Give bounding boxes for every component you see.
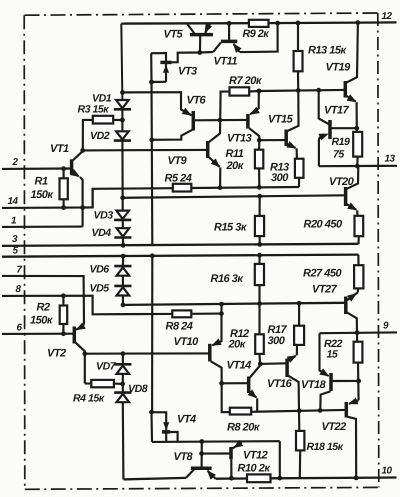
- node R2 bottom on pin6 line: [61, 331, 66, 336]
- svg-text:VT16: VT16: [267, 378, 293, 390]
- transistor VT2 collector wire: [75, 342, 85, 383]
- wire VT6 emitter from VD chain: [123, 92, 192, 115]
- resistor R11 box: [255, 150, 263, 169]
- transistor VT10 collector wire: [211, 361, 230, 412]
- resistor R16 bottom lead / R12 top lead: [258, 285, 260, 334]
- node R13 bottom on bus: [296, 88, 301, 93]
- node VT12 emitter on rail: [277, 476, 282, 481]
- resistor R22 bottom lead: [357, 363, 360, 401]
- pin 1 label: [11, 216, 16, 227]
- transistor VT19 label: [326, 62, 352, 74]
- node R4 right on VD chain: [120, 382, 125, 387]
- transistor VT22 collector wire: [348, 417, 357, 478]
- resistor R18 label: [307, 441, 344, 453]
- svg-text:VT12: VT12: [243, 450, 268, 462]
- wire VT3-VT6 column down to pin 3 bus: [150, 82, 153, 245]
- resistor R20 box: [355, 216, 364, 236]
- transistor VT19 emitter wire: [347, 94, 357, 132]
- resistor R5 label: [165, 173, 192, 185]
- pin 10 label: [382, 466, 393, 477]
- svg-text:VT1: VT1: [50, 143, 69, 155]
- node R3 right on VD chain: [120, 118, 125, 123]
- resistor R19 bottom lead: [356, 157, 358, 167]
- pin 7 label: [17, 265, 23, 276]
- resistor R13-300 bottom lead: [298, 178, 300, 187]
- node R2 top on pin8 line: [61, 293, 66, 298]
- resistor R27 label: [303, 268, 342, 280]
- svg-text:R13 15к: R13 15к: [308, 45, 347, 57]
- transistor VT17 label: [324, 105, 350, 117]
- resistor R1 top lead: [63, 169, 65, 179]
- resistor R10 box: [247, 474, 271, 482]
- node VT12 collector on rail: [229, 476, 234, 481]
- resistor R18 bottom lead: [299, 450, 302, 478]
- diode VD6: [114, 266, 131, 276]
- transistor VT16 body: [285, 359, 289, 378]
- node VD chain / VT6 emitter: [120, 90, 125, 95]
- diode VD1: [114, 100, 131, 109]
- wire VD5 down to bias bus: [122, 296, 124, 305]
- transistor VT3 loop left side: [151, 53, 166, 82]
- resistor R2 label: [30, 302, 54, 327]
- transistor VT18 body: [329, 373, 333, 391]
- transistor VT11 label: [214, 56, 238, 68]
- wire bias column x152: [151, 256, 153, 412]
- svg-text:VT2: VT2: [47, 348, 66, 360]
- diode VD8: [114, 393, 131, 403]
- resistor R19 label: [332, 136, 351, 161]
- wire R8 right to VT10 emitter column: [191, 313, 221, 315]
- node VT1 collector: [80, 148, 85, 153]
- node R13 top on rail: [296, 21, 301, 26]
- svg-text:2: 2: [12, 157, 19, 168]
- transistor VT4 label: [177, 414, 196, 426]
- node bias column top on pin5 bus: [150, 253, 155, 258]
- wire node to VT11 collector: [200, 51, 213, 54]
- pin 6 label: [17, 323, 23, 334]
- transistor VT9 body: [206, 141, 210, 158]
- transistor VT15 collector wire: [287, 90, 298, 131]
- node VT18 base on bus: [318, 408, 323, 413]
- resistor R17 box: [294, 326, 304, 345]
- transistor VT14 body: [247, 377, 251, 394]
- svg-text:14: 14: [8, 196, 19, 207]
- transistor VT17 emitter wire: [319, 134, 329, 167]
- resistor R8-24 box: [172, 310, 191, 317]
- node A VT13 collector / VT15 base: [257, 138, 262, 143]
- svg-text:R27 450: R27 450: [303, 268, 342, 280]
- transistor VT5 body: [187, 23, 213, 34]
- svg-text:R9 2к: R9 2к: [243, 28, 270, 40]
- pin 14 label: [8, 196, 19, 207]
- resistor R12 box: [255, 334, 264, 354]
- resistor R12 label: [228, 328, 250, 351]
- transistor VT16 emitter wire: [287, 345, 297, 363]
- diode VD3: [114, 211, 131, 220]
- resistor R2 top lead: [62, 296, 64, 306]
- transistor VT18 base wire: [320, 391, 330, 410]
- node VD chain to second stage bus: [120, 195, 125, 200]
- svg-text:VD5: VD5: [90, 283, 111, 295]
- svg-text:R18 15к: R18 15к: [307, 441, 344, 453]
- resistor R13 box: [294, 51, 303, 71]
- node VD4 on pin 3 bus: [121, 243, 126, 248]
- wire rail left corner down to VD1: [121, 24, 122, 100]
- resistor R20 bottom lead to pin3 bus: [357, 236, 359, 244]
- diode VD1 label: [92, 93, 112, 105]
- transistor VT1 emitter wire: [70, 169, 83, 227]
- pin 2 lead: [2, 167, 71, 170]
- svg-text:300: 300: [271, 172, 289, 184]
- IC boundary chain border (top): [25, 13, 378, 15]
- transistor VT6 collector wire: [152, 130, 193, 140]
- transistor VT11 emitter return wire: [240, 23, 278, 52]
- svg-text:VD8: VD8: [128, 383, 148, 395]
- pin 3 label: [12, 234, 18, 245]
- transistor VT8 body: [186, 468, 216, 480]
- transistor VT6 label: [187, 95, 207, 107]
- transistor VT4 loop left: [150, 412, 153, 442]
- wire VD6 to VD5: [122, 276, 124, 286]
- transistor VT1 collector wire: [73, 150, 83, 160]
- transistor VT8 label: [174, 451, 194, 463]
- wire R5 right segment: [191, 187, 299, 188]
- resistor R3 right lead: [113, 119, 122, 121]
- wire VD8 down to bottom rail: [122, 402, 125, 479]
- svg-text:10: 10: [382, 466, 393, 477]
- resistor R8-20k label: [227, 422, 261, 434]
- svg-text:1: 1: [11, 216, 16, 227]
- svg-text:R15 3к: R15 3к: [214, 222, 248, 234]
- resistor R15 label: [214, 222, 248, 234]
- svg-text:R7 20к: R7 20к: [229, 75, 263, 87]
- transistor VT20 body: [344, 187, 348, 206]
- svg-text:R8 24: R8 24: [166, 321, 193, 333]
- resistor R20 label: [304, 219, 343, 231]
- resistor R13-300 box: [295, 159, 304, 178]
- wire bottom rail mid: [216, 477, 247, 480]
- resistor R1 label: [31, 176, 55, 201]
- resistor R15 top lead: [259, 196, 261, 216]
- transistor VT19 body: [344, 81, 348, 98]
- svg-text:6: 6: [17, 323, 23, 334]
- resistor R11 label: [226, 148, 245, 172]
- diode VD7: [114, 364, 131, 374]
- wire node left to VT3 base: [172, 53, 200, 63]
- wire VT14 base: [222, 382, 248, 384]
- transistor VT6 body: [192, 111, 196, 131]
- transistor VT16 label: [267, 378, 293, 390]
- node R1 top on pin2 line: [61, 166, 66, 171]
- resistor R7 left lead: [220, 92, 229, 120]
- svg-text:VD3: VD3: [94, 210, 114, 222]
- resistor R13 top lead: [297, 23, 299, 51]
- wire collector bus y90: [259, 90, 344, 91]
- transistor VT11 body: [213, 23, 242, 53]
- node VT6 collector to VT3 column: [149, 137, 154, 142]
- svg-text:300: 300: [268, 335, 286, 347]
- diode VD4: [114, 228, 131, 237]
- wire top supply rail left segment: [121, 22, 249, 25]
- svg-text:9: 9: [383, 321, 389, 332]
- node VT18 collector on R22 lead: [356, 379, 361, 384]
- node VD6 top on pin5 bus: [121, 254, 126, 259]
- wire pin9 corner to VT18 emitter: [319, 333, 329, 376]
- node R15 top on bus: [257, 194, 262, 199]
- transistor VT13 emitter wire: [250, 91, 260, 115]
- svg-text:R1: R1: [35, 176, 48, 188]
- wire VT1 collector bus to VT9 base: [83, 149, 207, 152]
- resistor R18 box: [296, 431, 304, 451]
- transistor VT9 emitter wire: [209, 157, 220, 187]
- wire emitter line with staircase: [83, 188, 173, 207]
- wire top supply rail right segment to pin 12: [269, 21, 397, 24]
- node R17 top on bias bus: [297, 301, 302, 306]
- svg-text:VD7: VD7: [96, 361, 117, 373]
- pin 5 bus: [2, 255, 358, 257]
- svg-text:12: 12: [382, 11, 393, 22]
- svg-text:VT14: VT14: [227, 360, 252, 372]
- node VT16 collector on bus: [297, 408, 302, 413]
- svg-text:VT22: VT22: [322, 421, 347, 433]
- transistor VT14 collector wire: [250, 364, 260, 378]
- wire R27 top lead: [357, 255, 359, 266]
- transistor VT22 body: [345, 402, 349, 418]
- resistor R2 bottom lead: [62, 324, 64, 334]
- svg-text:R16 3к: R16 3к: [211, 273, 245, 285]
- diode VD8 label: [128, 383, 148, 395]
- svg-text:R19: R19: [332, 136, 351, 148]
- node VT10 collector / VT14 base: [219, 381, 224, 386]
- pin 1 lead: [2, 226, 83, 228]
- svg-text:VT4: VT4: [177, 414, 196, 426]
- diode VD5: [114, 286, 131, 296]
- svg-text:R20 450: R20 450: [304, 219, 343, 231]
- node VT27 collector on pin9: [355, 330, 360, 335]
- pin 9 label: [383, 321, 389, 332]
- wire pin5 bus to VD6: [122, 256, 124, 266]
- resistor R19 box: [353, 132, 362, 157]
- resistor R4 label: [73, 393, 105, 405]
- IC boundary chain border (bottom): [25, 487, 379, 489]
- transistor VT20 collector wire: [347, 166, 359, 189]
- svg-text:VT20: VT20: [329, 176, 355, 188]
- wire bias bus to VT27 base: [123, 303, 345, 305]
- transistor VT10 body: [208, 344, 212, 362]
- wire VT2 emitter diag: [76, 323, 86, 331]
- svg-text:15: 15: [327, 349, 339, 361]
- transistor VT15 label: [268, 114, 294, 126]
- transistor VT3 body: [151, 53, 171, 82]
- resistor R3 box: [93, 116, 113, 124]
- svg-text:VD2: VD2: [90, 130, 110, 142]
- svg-text:20к: 20к: [228, 339, 247, 351]
- svg-text:R11: R11: [226, 148, 244, 160]
- diode VD3 label: [94, 210, 114, 222]
- resistor R13-300 label: [270, 162, 289, 185]
- wire node A to VT15 base: [259, 139, 285, 141]
- resistor R1 box: [60, 178, 68, 199]
- transistor VT27 label: [312, 284, 338, 296]
- resistor R8-24 label: [166, 321, 193, 333]
- svg-text:7: 7: [17, 265, 23, 276]
- resistor R27 box: [354, 265, 363, 288]
- wire VT12 emitter corner to rail: [279, 441, 281, 478]
- svg-text:R2: R2: [37, 302, 50, 314]
- wire VD1 to VD2: [121, 110, 123, 132]
- IC boundary chain border (left): [23, 15, 26, 488]
- node VT17 collector / VT19 emitter: [354, 126, 359, 131]
- node R16 top on pin5 bus: [257, 253, 262, 258]
- transistor VT12 emitter wire: [232, 440, 243, 449]
- svg-text:R3 15к: R3 15к: [78, 104, 110, 116]
- pin 13 label: [385, 154, 396, 165]
- resistor R16 box: [255, 264, 264, 285]
- node base bus junction: [218, 118, 223, 123]
- pin 7 lead: [2, 276, 84, 325]
- transistor VT3 label: [178, 66, 197, 78]
- resistor R7 right lead: [249, 90, 259, 93]
- resistor R1 bottom lead: [63, 199, 65, 207]
- resistor R15 box: [255, 216, 264, 236]
- svg-text:VT9: VT9: [168, 155, 188, 167]
- svg-text:VD4: VD4: [92, 227, 112, 239]
- node VT2 collector: [82, 351, 87, 356]
- transistor VT27 collector wire: [347, 313, 357, 342]
- resistor R15 bottom lead: [259, 236, 261, 244]
- transistor VT13 collector wire: [249, 128, 259, 140]
- transistor VT5 base lead down: [199, 36, 201, 53]
- resistor R17 label: [268, 324, 288, 347]
- node VT10 emitter column on bias bus: [219, 302, 224, 307]
- transistor VT2 body: [73, 327, 77, 344]
- transistor VT1 body: [70, 159, 74, 174]
- node VD7 top on bus: [121, 351, 126, 356]
- svg-text:VT19: VT19: [326, 62, 352, 74]
- svg-text:5: 5: [13, 246, 19, 257]
- node VT3 emitter junction: [149, 80, 154, 85]
- transistor VT4 body: [152, 412, 171, 442]
- transistor VT9 collector wire: [209, 120, 220, 142]
- node VT12 base on VT8 collector: [199, 451, 204, 456]
- node B R12 bottom / VT14 collector / VT16 base: [258, 362, 263, 367]
- diode VD2 label: [90, 130, 110, 142]
- diode VD2: [114, 131, 131, 140]
- svg-text:VT3: VT3: [178, 66, 197, 78]
- diode VD7 label: [96, 361, 117, 373]
- transistor VT15 emitter wire: [286, 141, 297, 159]
- wire VD7 to VD8: [122, 374, 124, 393]
- node R1 bottom on pin14 line: [61, 205, 66, 210]
- transistor VT16 collector wire: [288, 376, 299, 431]
- wire VD3 to VD4: [122, 220, 124, 228]
- resistor R22 box: [354, 342, 363, 363]
- svg-text:VT18: VT18: [301, 379, 327, 391]
- resistor R17 top lead: [298, 303, 300, 325]
- transistor VT20 label: [329, 176, 355, 188]
- resistor R10 label: [238, 463, 272, 475]
- svg-text:VT15: VT15: [268, 114, 294, 126]
- resistor R5 box: [173, 184, 192, 192]
- resistor R4 box: [91, 380, 114, 387]
- transistor VT12 label: [243, 450, 268, 462]
- resistor R16 label: [211, 273, 245, 285]
- transistor VT5 label: [164, 29, 184, 41]
- svg-text:20к: 20к: [226, 160, 245, 172]
- transistor VT18 label: [301, 379, 327, 391]
- pin 13 lead: [319, 165, 397, 168]
- pin 3 bus: [2, 244, 359, 246]
- transistor VT14 label: [227, 360, 252, 372]
- wire VD4 to pin3 bus: [122, 238, 124, 246]
- node VT17 base tap on bus: [316, 88, 321, 93]
- resistor R3 label: [78, 104, 110, 116]
- transistor VT12 body: [229, 447, 233, 459]
- pin 5 label: [13, 246, 19, 257]
- wire VT4 bottom line: [152, 440, 280, 443]
- node VT8 collector top: [199, 439, 204, 444]
- transistor VT13 body: [246, 114, 250, 129]
- svg-text:VT6: VT6: [187, 95, 207, 107]
- svg-text:VT8: VT8: [174, 451, 194, 463]
- resistor R4 right lead: [114, 383, 123, 385]
- node VD5 bottom: [121, 303, 126, 308]
- resistor R11 top lead: [258, 140, 260, 150]
- svg-text:VT10: VT10: [174, 336, 200, 348]
- svg-text:R10 2к: R10 2к: [238, 463, 272, 475]
- resistor R3 left lead: [83, 120, 93, 150]
- node R19 on pin13 line: [355, 164, 360, 169]
- transistor VT27 emitter wire: [347, 288, 358, 301]
- pin 9 lead: [320, 331, 398, 334]
- resistor R9 box: [249, 20, 269, 27]
- transistor VT19 collector wire: [347, 23, 358, 83]
- resistor R4 left lead: [85, 382, 92, 384]
- transistor VT2 label: [47, 348, 66, 360]
- wire VT10 emitter column: [212, 304, 222, 346]
- resistor R9 label: [243, 28, 270, 40]
- svg-text:VT5: VT5: [164, 29, 184, 41]
- resistor R13 label: [308, 45, 347, 57]
- node VT19 collector on rail: [356, 20, 361, 25]
- wire bottom base bus: [251, 410, 345, 412]
- node VT11 base on rail: [227, 21, 232, 26]
- node R7/VT13 emitter: [257, 89, 262, 94]
- svg-text:150к: 150к: [31, 189, 55, 201]
- svg-text:R4 15к: R4 15к: [73, 393, 105, 405]
- transistor VT1 label: [50, 143, 69, 155]
- node VT22 collector on rail: [354, 476, 359, 481]
- transistor VT15 body: [284, 130, 288, 147]
- node R11 bottom on line: [257, 185, 262, 190]
- svg-text:VT13: VT13: [227, 133, 252, 145]
- resistor R13 bottom lead: [297, 71, 299, 90]
- node VT4 top junction: [149, 410, 154, 415]
- wire VT2 collector bus to VT10 base: [85, 352, 209, 354]
- svg-text:R8 20к: R8 20к: [227, 422, 261, 434]
- pin 2 label: [12, 157, 19, 168]
- IC boundary chain border (right): [378, 13, 379, 487]
- node R15 bottom on pin3 bus: [257, 242, 262, 247]
- wire base bus VT6-VT13: [195, 119, 247, 122]
- transistor VT14 emitter wire: [248, 389, 258, 411]
- wire bottom rail right to pin 10: [271, 476, 397, 479]
- wire bottom rail left: [123, 478, 186, 480]
- transistor VT20 emitter wire: [347, 203, 358, 216]
- transistor VT12 base wire: [202, 452, 230, 454]
- node R16-R12 column on bias bus: [257, 301, 262, 306]
- svg-text:VT27: VT27: [312, 284, 338, 296]
